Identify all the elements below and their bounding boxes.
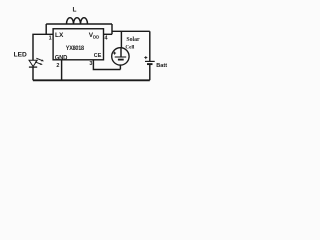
svg-text:Cell: Cell — [125, 44, 134, 50]
svg-text:3: 3 — [89, 61, 92, 67]
svg-text:4: 4 — [105, 36, 109, 42]
svg-text:Solar: Solar — [126, 37, 140, 43]
svg-text:CE: CE — [94, 53, 102, 59]
svg-text:LX: LX — [55, 32, 64, 39]
svg-text:L: L — [73, 7, 77, 14]
svg-text:DD: DD — [93, 35, 99, 40]
svg-text:GND: GND — [55, 54, 68, 61]
svg-text:LED: LED — [14, 52, 27, 59]
svg-text:Batt: Batt — [156, 63, 167, 69]
svg-text:YX8018: YX8018 — [66, 46, 85, 53]
svg-text:1: 1 — [49, 36, 52, 42]
svg-text:2: 2 — [56, 63, 59, 69]
